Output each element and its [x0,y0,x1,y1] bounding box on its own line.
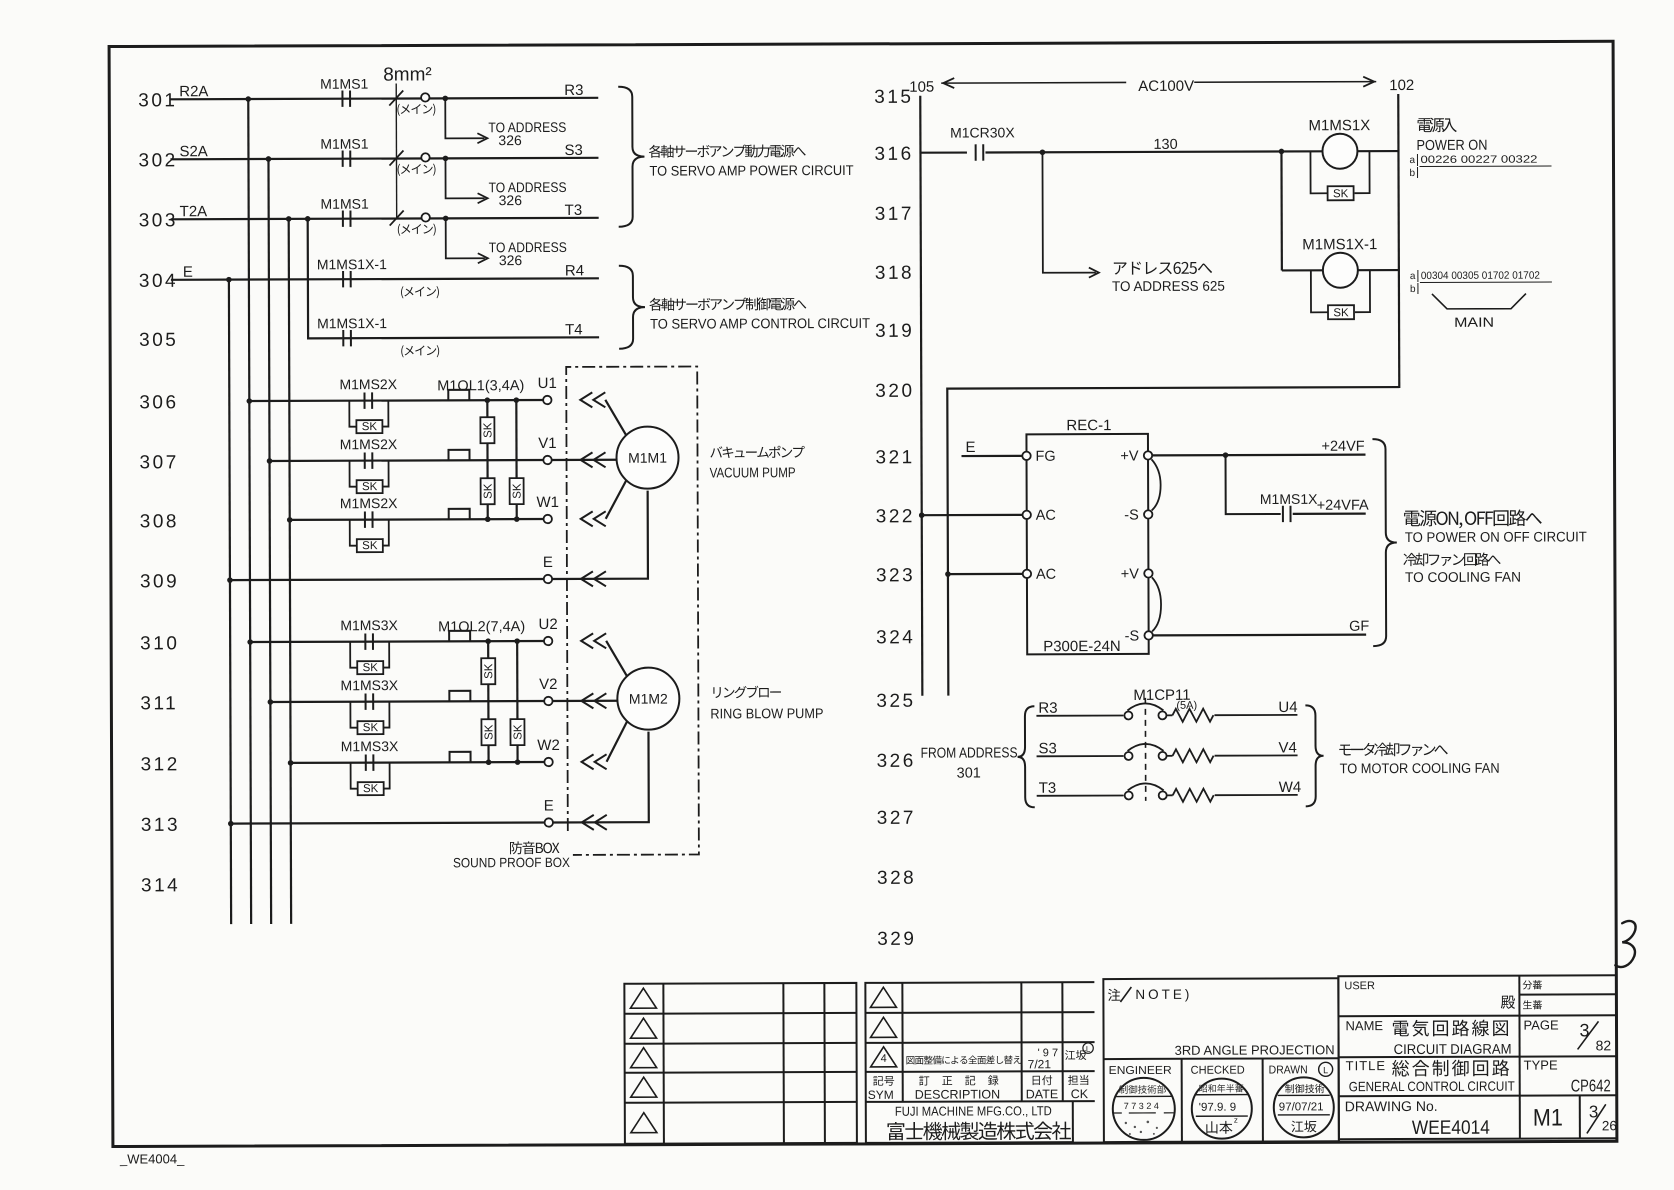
svg-text:WEE4014: WEE4014 [1412,1117,1490,1139]
(main) label (line 305) [401,345,439,357]
overload heater bump (line 311) [449,691,470,702]
coil M1MS1X-1 SK parallel branch [1311,270,1328,312]
svg-text:328: 328 [877,868,916,889]
svg-text:326: 326 [498,132,522,148]
wire E to motor M1M2 [552,732,648,823]
svg-text:SYM: SYM [868,1088,894,1102]
terminal -S pin (line 324) [1144,631,1152,639]
SK auxiliary parallel branch (line 312) [351,763,358,789]
svg-text:M1MS2X: M1MS2X [340,436,398,452]
svg-text:L: L [1086,1045,1091,1054]
svg-text:E: E [544,797,554,814]
svg-text:M1M1: M1M1 [628,450,667,466]
svg-text:102: 102 [1389,77,1414,94]
brace servo amp control circuit [619,266,645,349]
svg-text:R3: R3 [564,82,583,99]
svg-text:M1MS2X: M1MS2X [340,495,398,511]
svg-text:304: 304 [139,271,178,292]
svg-text:AC: AC [1036,567,1056,583]
title block right section [1338,975,1617,1139]
(main) label (line 302) [398,164,436,176]
svg-text:'97.9. 9: '97.9. 9 [1199,1102,1236,1114]
junction dot bus line 306 [247,398,253,404]
svg-text:T3: T3 [565,202,583,219]
contact M1MS1X-1 (line 304) [343,271,351,287]
svg-text:+24VFA: +24VFA [1317,498,1369,514]
wire line 307 phase V1 [270,459,544,462]
tap +24VFA with contact M1MS1X [1223,452,1229,458]
svg-text:TO MOTOR COOLING FAN: TO MOTOR COOLING FAN [1340,760,1500,777]
bus T (phase T from line 303) [289,219,291,924]
contact M1MS2X (line 308) [365,511,373,527]
svg-text:SK: SK [1333,188,1349,200]
svg-text:a: a [1409,155,1415,166]
wire line 301 R2A to R3 [170,98,598,99]
svg-text:M1MS1X: M1MS1X [1260,491,1318,507]
junction dot bus line 310 [247,639,253,645]
svg-text:315: 315 [874,87,913,108]
svg-text:301: 301 [138,90,177,111]
bus R (phase R from line 301) [248,99,251,924]
junction dot bus T line 303 [286,216,292,222]
svg-text:CHECKED: CHECKED [1191,1065,1245,1077]
svg-text:4: 4 [881,1053,887,1065]
svg-text:PAGE: PAGE [1523,1017,1559,1032]
svg-text:301: 301 [957,765,981,781]
terminal W1 [544,515,552,523]
wire coil M1MS1X to right rail [1357,150,1398,152]
chevron arrows U1 [580,392,592,407]
brace to motor cooling fan [1305,705,1323,806]
header DATE (jp+en) [1033,1075,1053,1085]
svg-text:NOTE): NOTE) [1135,987,1192,1002]
label cooling fan circuit (jp) [1403,552,1500,566]
revision triangle [631,1113,657,1133]
label servo amp control (jp) [649,297,806,311]
svg-text:_WE4004_: _WE4004_ [119,1151,185,1166]
wire tap down to address 625 arrow [1042,152,1095,273]
svg-text:TO SERVO AMP CONTROL CIRCUIT: TO SERVO AMP CONTROL CIRCUIT [650,315,870,332]
svg-text:W2: W2 [537,737,560,754]
motor M1M2 [617,668,679,730]
wire line 311 phase V2 [270,700,544,703]
svg-text:SK: SK [512,483,524,499]
svg-text:325: 325 [876,691,915,712]
label ring blow pump (jp) [713,686,781,699]
wire-gauge slash (line 301) [389,91,403,106]
svg-text:326: 326 [499,252,523,268]
chevron arrows V1 [581,452,593,467]
brace from address 301 [1017,706,1034,807]
(main) label (line 303) [398,224,436,236]
handwritten page mark 3 [1615,921,1636,967]
svg-text:SK: SK [362,540,378,552]
svg-text:SK: SK [362,421,378,433]
revision triangle [631,1048,657,1068]
svg-text:321: 321 [875,447,914,468]
svg-text:TO ADDRESS 625: TO ADDRESS 625 [1112,278,1225,294]
overload branch A with SK elements (M1OL2(7,4A)) [487,641,490,762]
power supply REC-1 box [1026,434,1148,654]
seiban cell (jp) [1523,1000,1542,1009]
svg-text:U2: U2 [538,616,557,633]
label power on (jp) [1418,118,1457,133]
svg-text:97/07/21: 97/07/21 [1279,1101,1324,1113]
svg-text:U1: U1 [538,375,557,392]
chevron arrows U2 [581,633,593,648]
svg-text:AC: AC [1036,508,1056,524]
svg-text:FUJI MACHINE MFG.CO., LTD: FUJI MACHINE MFG.CO., LTD [895,1103,1052,1119]
svg-text:V2: V2 [539,676,557,693]
terminal U1 [543,396,551,404]
svg-text:-S: -S [1124,507,1139,523]
svg-text:MAIN: MAIN [1454,315,1494,330]
contact M1MS1X-1 (line 305) [343,330,351,346]
svg-text:308: 308 [140,511,179,532]
title kanji sougou seigyo kairo (jp) [1392,1060,1509,1077]
svg-text:W1: W1 [536,494,559,511]
wire V2 to motor [552,700,617,702]
svg-text:82: 82 [1596,1037,1612,1053]
svg-text:26: 26 [1602,1118,1617,1133]
svg-text:E: E [543,554,553,571]
terminal +V pin (line 323) [1144,569,1152,577]
svg-text:3: 3 [1579,1020,1589,1040]
svg-text:TITLE: TITLE [1346,1058,1386,1073]
SK auxiliary parallel branch (line 308) [350,520,357,546]
motor M1M1 [616,427,678,489]
terminal -S pin (line 322) [1144,510,1152,518]
(main) label (line 304) [401,286,439,298]
contact M1MS3X (line 311) [366,693,374,709]
svg-text:SK: SK [483,663,495,679]
wire from line 303 down to line 305 [308,219,342,339]
wire W1 diagonal to motor [606,480,627,519]
svg-text:T3: T3 [1039,780,1057,797]
svg-text:V1: V1 [538,435,556,452]
svg-text:00226 00227 00322: 00226 00227 00322 [1420,154,1537,166]
svg-text:R2A: R2A [179,83,208,100]
wire line 320 AC feed [947,387,1400,696]
svg-text:322: 322 [876,506,915,527]
right ladder rail left lower [921,515,924,695]
svg-text:USER: USER [1344,980,1375,992]
contact M1MS2X (line 307) [365,452,373,468]
contact M1CR30X [976,144,984,160]
company name kanji (jp) [887,1121,1070,1140]
svg-text:324: 324 [876,627,915,648]
svg-text:S2A: S2A [179,143,207,160]
svg-text:E: E [183,264,193,281]
svg-text:SK: SK [512,724,524,740]
wire after M1CR30X to coil M1MS1X [985,151,1322,152]
junction dot bus line 308 [287,517,293,523]
svg-text:326: 326 [877,751,916,772]
svg-text:317: 317 [875,204,914,225]
terminal V2 [544,697,552,705]
bus S (phase S from line 302) [268,159,271,924]
svg-text:TO SERVO AMP POWER CIRCUIT: TO SERVO AMP POWER CIRCUIT [649,162,853,179]
wire line 302 S2A to S3 [170,158,598,159]
terminal FG pin [1022,452,1030,460]
connector circle (line 303) [421,213,429,221]
svg-text:+24VF: +24VF [1321,439,1364,455]
overload heater bump (line 307) [448,450,469,461]
coil M1MS1X [1322,134,1357,169]
overload heater bump (line 308) [449,509,470,520]
svg-text:z: z [1234,1116,1238,1125]
svg-text:T2A: T2A [180,203,208,220]
svg-text:b: b [1410,284,1416,295]
svg-text:VACUUM PUMP: VACUUM PUMP [710,464,796,480]
svg-text:316: 316 [874,144,913,165]
svg-text:DESCRIPTION: DESCRIPTION [915,1087,1000,1101]
junction dot bus line 311 [268,699,274,705]
terminal E (line 313) [545,818,553,826]
svg-text:P300E-24N: P300E-24N [1043,638,1121,655]
tap to address 326 (line 301) [445,98,484,138]
svg-text:V4: V4 [1279,739,1297,756]
svg-text:DRAWN: DRAWN [1269,1064,1308,1076]
svg-text:7 7 3 2 4: 7 7 3 2 4 [1124,1101,1159,1111]
MAIN designation bracket [1432,294,1526,309]
wire U1 diagonal to motor [605,400,626,436]
name kanji denki kairo senzu (jp) [1393,1020,1508,1037]
wire line 309 motor earth E [230,579,544,580]
wire line 323 AC input lower [948,573,1023,575]
label motor cooling fan (jp) [1339,742,1448,756]
svg-text:M1CR30X: M1CR30X [950,124,1015,140]
overload heater bump (line 312) [450,752,471,763]
wire to U4 [1214,714,1297,716]
svg-text:130: 130 [1153,137,1177,153]
svg-text:FG: FG [1035,449,1055,465]
svg-text:M1MS1: M1MS1 [320,136,369,152]
bus E (from line 304) [229,280,231,924]
wire V1 to motor [552,459,617,461]
wire E to motor M1M1 [552,491,648,579]
brace power on off circuit [1372,439,1397,646]
junction to address-625 tap [1040,149,1046,155]
svg-text:RING BLOW PUMP: RING BLOW PUMP [710,705,823,721]
brace servo amp power circuit [618,87,644,227]
svg-text:POWER ON: POWER ON [1416,138,1487,154]
contact M1MS2X (line 306) [364,392,372,408]
svg-text:GF: GF [1349,619,1369,635]
svg-text:310: 310 [140,633,179,654]
wire line 322 AC input upper [922,514,1023,517]
svg-text:303: 303 [139,210,178,231]
overload branch B with SK element (M1OL1(3,4A)) [515,400,518,519]
thermal element pole 3 [1167,794,1173,796]
terminal E (line 309) [544,575,552,583]
wire line 308 phase W1 [290,518,544,521]
wire coil M1MS1X-1 to right rail [1358,269,1399,271]
svg-text:W4: W4 [1279,779,1302,796]
breaker trip dashed link [1144,698,1146,801]
svg-text:M1MS1X-1: M1MS1X-1 [1302,236,1377,253]
sound proof box dash-dot outline [566,366,699,854]
svg-text:DATE: DATE [1026,1087,1058,1101]
svg-text:318: 318 [875,263,914,284]
revision table left [624,983,857,1144]
tap to address 326 (line 303) [446,218,485,258]
svg-text:a: a [1410,271,1416,282]
wire-gauge slash (line 302) [389,151,403,166]
svg-text:TO POWER ON OFF CIRCUIT: TO POWER ON OFF CIRCUIT [1405,528,1587,545]
breaker arc pole 2 [1128,744,1164,751]
wire gauge marker line [395,84,397,219]
terminal W2 [544,758,552,766]
svg-text:7/21: 7/21 [1028,1057,1052,1071]
contact M1MS1 (line 301) [342,90,350,106]
connector circle (line 301) [421,93,429,101]
note header (jp) [1108,989,1121,1001]
wire to W4 [1215,794,1298,796]
svg-text:M1MS1X-1: M1MS1X-1 [317,256,387,272]
contact M1MS1 (line 303) [343,210,351,226]
svg-text:REC-1: REC-1 [1066,417,1111,434]
(main) label (line 301) [397,104,435,116]
svg-text:S3: S3 [1039,740,1057,757]
contact M1MS1 (line 302) [343,150,351,166]
wire line 312 phase W2 [291,761,545,764]
svg-text:SOUND PROOF BOX: SOUND PROOF BOX [453,855,570,870]
svg-text:M1OL2(7,4A): M1OL2(7,4A) [438,619,525,635]
note box [1103,978,1339,1142]
svg-text:306: 306 [139,392,178,413]
svg-text:T4: T4 [565,321,583,338]
svg-text:FROM ADDRESS: FROM ADDRESS [921,745,1018,761]
label power ON OFF circuit (jp) [1404,509,1542,528]
svg-text:M1: M1 [1533,1104,1563,1131]
svg-text:M1OL1(3,4A): M1OL1(3,4A) [437,378,524,394]
svg-text:327: 327 [877,808,916,829]
revision triangle [631,1077,657,1097]
svg-text:00304 00305 01702 01702: 00304 00305 01702 01702 [1421,270,1540,282]
svg-text:SK: SK [362,481,378,493]
svg-text:302: 302 [138,150,177,171]
svg-text:329: 329 [877,929,916,950]
svg-text:305: 305 [139,330,178,351]
connector circle (line 302) [421,153,429,161]
junction dot bus E line 304 [226,277,232,283]
terminal AC pin (line 323) [1023,570,1031,578]
header CK (jp+en) [1068,1075,1088,1085]
wire line 306 phase U1 [249,400,543,401]
svg-text:307: 307 [139,452,178,473]
SK auxiliary parallel branch (line 311) [350,702,357,728]
svg-text:ENGINEER: ENGINEER [1109,1065,1172,1077]
revision triangle [870,987,896,1007]
svg-text:SK: SK [482,422,494,438]
svg-text:M1MS3X: M1MS3X [340,617,398,633]
svg-text:M1MS3X: M1MS3X [341,738,399,754]
SK auxiliary parallel branch (line 310) [350,642,357,668]
coil M1MS1X SK parallel branch [1310,151,1327,193]
junction coil branch line 318 [1279,149,1285,155]
contact M1MS1X (line 322) [1283,506,1291,522]
svg-text:M1MS1X-1: M1MS1X-1 [317,315,387,331]
junction dot bus line 312 [288,760,294,766]
svg-text:3RD ANGLE PROJECTION: 3RD ANGLE PROJECTION [1175,1042,1335,1058]
junction dot bus R line 301 [245,96,251,102]
svg-text:+V: +V [1120,448,1139,464]
svg-text:312: 312 [141,754,180,775]
thermal element pole 1 [1166,714,1172,716]
drawn stamp department (jp) [1285,1084,1324,1093]
svg-text:E: E [965,439,975,456]
svg-text:309: 309 [140,571,179,592]
terminal U2 [544,637,552,645]
revision triangle 4 [871,1047,897,1067]
breaker arc pole 1 [1127,703,1163,710]
wire -S to GF [1153,634,1366,637]
right ladder rail left (105) [920,96,921,515]
svg-text:SK: SK [363,722,379,734]
chevron arrows W2 [582,754,594,769]
label to address 625 (jp) [1114,261,1212,274]
svg-text:R3: R3 [1038,700,1057,717]
revision 4 description (jp) [906,1055,1021,1064]
svg-text:(5A): (5A) [1176,700,1197,712]
header DESCRIPTION (jp+en) [919,1075,998,1085]
wire-gauge slash (line 303) [390,211,404,226]
svg-text:M1MS2X: M1MS2X [339,376,397,392]
revision triangle [870,1017,896,1037]
wire line 310 phase U2 [250,641,544,642]
coil M1MS1X-1 [1323,253,1358,288]
wire line 316 [920,151,966,153]
overload branch B with SK element (M1OL2(7,4A)) [516,641,519,762]
wire line 303 T2A to T3 [171,218,599,219]
svg-text:GENERAL CONTROL CIRCUIT: GENERAL CONTROL CIRCUIT [1349,1079,1515,1095]
terminal V1 [543,456,551,464]
svg-text:311: 311 [140,693,178,714]
SK auxiliary parallel branch (line 306) [349,401,356,427]
dono (jp) [1501,996,1515,1009]
contact M1MS3X (line 310) [365,633,373,649]
svg-text:CK: CK [1071,1087,1089,1101]
wire +V to +24VF [1153,454,1366,457]
svg-text:CP642: CP642 [1571,1076,1611,1095]
breaker arc pole 3 [1128,783,1164,790]
svg-text:313: 313 [141,815,180,836]
svg-text:8mm²: 8mm² [383,64,432,85]
label vacuum pump (jp) [710,446,804,458]
bunban cell (jp) [1523,980,1542,989]
revision 4 engineer (jp) [1065,1050,1086,1060]
right ladder rail right (102) [1398,94,1399,388]
svg-text:NAME: NAME [1345,1018,1383,1033]
svg-text:U4: U4 [1278,699,1297,716]
tap to address 326 (line 302) [445,158,484,198]
svg-text:M1MS1: M1MS1 [320,196,369,212]
terminal AC pin (line 322) [1023,511,1031,519]
svg-text:TYPE: TYPE [1524,1057,1558,1072]
svg-text:M1M2: M1M2 [629,691,668,707]
svg-text:SK: SK [483,724,495,740]
overload branch A with SK elements (M1OL1(3,4A)) [486,400,489,519]
svg-text:M1MS3X: M1MS3X [340,677,398,693]
svg-text:M1MS1X: M1MS1X [1308,117,1370,134]
wire line 305 to T4 [342,336,599,339]
svg-text:CIRCUIT DIAGRAM: CIRCUIT DIAGRAM [1394,1041,1512,1057]
svg-text:TO COOLING FAN: TO COOLING FAN [1405,569,1521,585]
label sound proof box (jp) [510,841,559,854]
jumper arc +V to -S lower [1152,577,1161,631]
junction dot line303 tap to line305 [305,216,311,222]
